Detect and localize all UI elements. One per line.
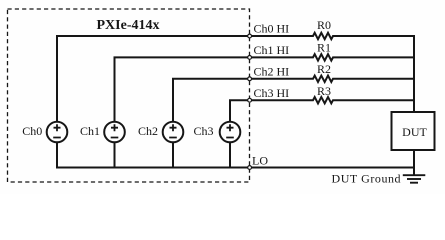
svg-text:Ch1: Ch1: [80, 124, 100, 138]
svg-text:R1: R1: [317, 40, 331, 54]
svg-text:DUT Ground: DUT Ground: [332, 172, 402, 186]
svg-text:DUT: DUT: [402, 125, 427, 139]
svg-text:Ch0: Ch0: [22, 124, 42, 138]
svg-text:LO: LO: [252, 153, 268, 167]
svg-text:Ch3: Ch3: [193, 124, 213, 138]
svg-text:Ch2: Ch2: [138, 124, 158, 138]
svg-text:Ch1 HI: Ch1 HI: [254, 43, 290, 57]
svg-text:PXIe-414x: PXIe-414x: [97, 18, 160, 33]
svg-text:R3: R3: [317, 84, 331, 98]
svg-text:Ch0 HI: Ch0 HI: [254, 22, 290, 36]
svg-text:R0: R0: [317, 18, 331, 32]
svg-text:R2: R2: [317, 62, 331, 76]
svg-text:Ch2 HI: Ch2 HI: [254, 64, 290, 78]
svg-text:Ch3 HI: Ch3 HI: [254, 86, 290, 100]
